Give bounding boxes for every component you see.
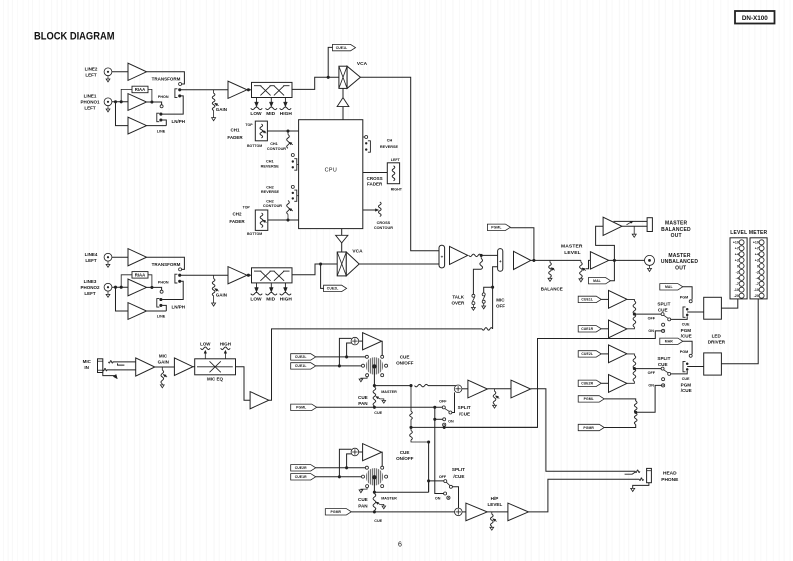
svg-text:PGML: PGML bbox=[296, 406, 306, 410]
svg-text:CUE2L: CUE2L bbox=[581, 352, 593, 356]
svg-text:TOP: TOP bbox=[245, 123, 253, 127]
svg-text:+2: +2 bbox=[735, 259, 739, 263]
svg-text:SPLIT: SPLIT bbox=[452, 467, 465, 472]
svg-text:PGMR: PGMR bbox=[331, 510, 342, 514]
svg-text:/CUE: /CUE bbox=[453, 474, 464, 479]
svg-text:ON: ON bbox=[448, 420, 454, 424]
svg-text:LEFT: LEFT bbox=[391, 158, 401, 162]
svg-text:TALK: TALK bbox=[452, 294, 464, 299]
svg-text:LEFT: LEFT bbox=[85, 258, 96, 263]
svg-text:CUE1L: CUE1L bbox=[295, 364, 307, 368]
svg-text:LINE4: LINE4 bbox=[85, 252, 98, 257]
svg-text:MIC: MIC bbox=[83, 359, 92, 364]
svg-text:PGM: PGM bbox=[680, 350, 688, 354]
svg-text:LINE3: LINE3 bbox=[84, 279, 97, 284]
svg-text:IN: IN bbox=[84, 365, 89, 370]
svg-text:ON: ON bbox=[648, 329, 654, 333]
svg-text:ON/OFF: ON/OFF bbox=[396, 360, 414, 365]
svg-text:PGML: PGML bbox=[491, 226, 501, 230]
svg-text:BALANCED: BALANCED bbox=[661, 227, 691, 233]
svg-text:PGM: PGM bbox=[681, 382, 692, 387]
svg-text:SPLIT: SPLIT bbox=[458, 405, 471, 410]
svg-text:LED: LED bbox=[712, 334, 722, 339]
svg-text:BLOCK DIAGRAM: BLOCK DIAGRAM bbox=[34, 31, 115, 43]
svg-text:FADER: FADER bbox=[367, 181, 383, 186]
svg-text:PAN: PAN bbox=[358, 503, 368, 508]
svg-text:-7: -7 bbox=[756, 282, 759, 286]
svg-text:OUT: OUT bbox=[671, 233, 682, 239]
svg-text:CUE: CUE bbox=[658, 362, 668, 367]
svg-text:REVERSE: REVERSE bbox=[380, 145, 399, 149]
svg-text:MAL: MAL bbox=[593, 279, 601, 283]
svg-text:DRIVER: DRIVER bbox=[708, 339, 726, 344]
svg-text:ON/OFF: ON/OFF bbox=[396, 456, 414, 461]
svg-text:CROSS: CROSS bbox=[377, 221, 391, 225]
svg-text:LOW: LOW bbox=[200, 342, 211, 347]
svg-text:-20: -20 bbox=[754, 294, 759, 298]
svg-text:LEFT: LEFT bbox=[84, 291, 95, 296]
svg-text:GAIN: GAIN bbox=[216, 107, 227, 112]
svg-text:LINE1: LINE1 bbox=[84, 93, 97, 98]
svg-text:+2: +2 bbox=[755, 259, 759, 263]
svg-text:LN/PH: LN/PH bbox=[172, 119, 186, 124]
svg-text:RIAA: RIAA bbox=[135, 273, 146, 278]
svg-text:CUE1R: CUE1R bbox=[581, 327, 593, 331]
svg-text:+: + bbox=[441, 254, 444, 259]
svg-text:CUE: CUE bbox=[400, 354, 410, 359]
svg-text:LEVEL METER: LEVEL METER bbox=[730, 230, 767, 236]
svg-text:MASTER: MASTER bbox=[668, 253, 691, 259]
svg-text:HIGH: HIGH bbox=[280, 296, 293, 302]
svg-text:/CUE: /CUE bbox=[681, 334, 692, 339]
svg-text:+4: +4 bbox=[735, 253, 739, 257]
svg-text:LOW: LOW bbox=[250, 296, 262, 302]
svg-text:ON: ON bbox=[435, 496, 441, 500]
svg-text:HIGH: HIGH bbox=[280, 111, 293, 117]
svg-text:H/P: H/P bbox=[491, 496, 499, 501]
svg-text:CUE1R: CUE1R bbox=[295, 475, 307, 479]
svg-text:CUE: CUE bbox=[682, 323, 690, 327]
svg-text:CUE: CUE bbox=[658, 308, 668, 313]
svg-text:CONTOUR: CONTOUR bbox=[263, 204, 282, 208]
svg-text:VCA: VCA bbox=[352, 249, 363, 255]
svg-text:OFF: OFF bbox=[496, 304, 505, 309]
svg-text:-2: -2 bbox=[736, 270, 739, 274]
svg-text:RIGHT: RIGHT bbox=[391, 188, 403, 192]
svg-text:LINE: LINE bbox=[157, 129, 166, 133]
svg-text:-4: -4 bbox=[756, 276, 759, 280]
svg-text:CUE1L: CUE1L bbox=[336, 46, 348, 50]
svg-text:RIAA: RIAA bbox=[135, 87, 146, 92]
svg-text:TOP: TOP bbox=[243, 205, 251, 209]
svg-text:+10: +10 bbox=[733, 241, 739, 245]
svg-text:+7: +7 bbox=[735, 247, 739, 251]
svg-text:MASTER: MASTER bbox=[561, 243, 583, 249]
svg-text:LN/PH: LN/PH bbox=[172, 304, 186, 309]
svg-text:PHON: PHON bbox=[158, 281, 169, 285]
svg-text:CONTOUR: CONTOUR bbox=[267, 147, 286, 151]
svg-text:OFF: OFF bbox=[439, 400, 447, 404]
svg-text:GAIN: GAIN bbox=[158, 359, 169, 364]
svg-text:HIGH: HIGH bbox=[220, 342, 231, 347]
svg-text:-20: -20 bbox=[734, 294, 739, 298]
svg-text:CUE: CUE bbox=[374, 519, 382, 523]
svg-text:MIC EQ: MIC EQ bbox=[207, 377, 224, 382]
svg-text:PGMR: PGMR bbox=[583, 426, 594, 430]
svg-text:CUE1L: CUE1L bbox=[581, 298, 593, 302]
svg-text:PGML: PGML bbox=[584, 397, 594, 401]
svg-text:CH1: CH1 bbox=[230, 127, 239, 132]
svg-text:SPLIT: SPLIT bbox=[657, 301, 670, 306]
svg-text:+4: +4 bbox=[755, 253, 759, 257]
svg-text:OFF: OFF bbox=[648, 371, 656, 375]
svg-text:LEFT: LEFT bbox=[85, 72, 96, 77]
svg-text:CUE: CUE bbox=[358, 395, 368, 400]
svg-text:GAIN: GAIN bbox=[216, 293, 227, 298]
svg-text:PHONO2: PHONO2 bbox=[80, 285, 100, 290]
svg-text:-7: -7 bbox=[736, 282, 739, 286]
svg-text:LINE2: LINE2 bbox=[85, 66, 98, 71]
svg-text:MASTER: MASTER bbox=[381, 496, 397, 500]
svg-text:OUT: OUT bbox=[675, 266, 686, 272]
svg-text:CUE2L: CUE2L bbox=[295, 355, 307, 359]
svg-text:/CUE: /CUE bbox=[459, 412, 470, 417]
svg-text:CH: CH bbox=[387, 138, 393, 142]
svg-text:LINE: LINE bbox=[157, 315, 166, 319]
svg-text:UNBALANCED: UNBALANCED bbox=[661, 259, 698, 265]
svg-text:CUE: CUE bbox=[358, 497, 368, 502]
svg-text:CH2: CH2 bbox=[232, 211, 241, 216]
svg-text:CH2: CH2 bbox=[266, 185, 274, 189]
svg-text:MIC: MIC bbox=[496, 298, 505, 303]
svg-text:PHONO1: PHONO1 bbox=[80, 99, 100, 104]
svg-text:MASTER: MASTER bbox=[665, 221, 688, 227]
svg-text:0: 0 bbox=[737, 264, 739, 268]
svg-text:HEAD: HEAD bbox=[663, 471, 677, 477]
svg-text:PGM: PGM bbox=[680, 295, 688, 299]
svg-text:PHONE: PHONE bbox=[661, 477, 679, 483]
svg-text:REVERSE: REVERSE bbox=[261, 190, 280, 194]
svg-text:FADER: FADER bbox=[227, 135, 243, 140]
svg-text:+: + bbox=[499, 259, 502, 264]
svg-text:VCA: VCA bbox=[357, 61, 368, 67]
svg-text:6: 6 bbox=[398, 542, 402, 549]
svg-text:CUE2L: CUE2L bbox=[327, 287, 339, 291]
svg-text:TRANSFORM: TRANSFORM bbox=[152, 262, 181, 267]
svg-text:OFF: OFF bbox=[648, 316, 656, 320]
svg-text:/CUE: /CUE bbox=[681, 388, 692, 393]
svg-text:REVERSE: REVERSE bbox=[261, 164, 280, 168]
svg-text:TRANSFORM: TRANSFORM bbox=[152, 76, 181, 81]
svg-text:MAR: MAR bbox=[665, 340, 673, 344]
svg-text:+7: +7 bbox=[755, 247, 759, 251]
svg-text:+10: +10 bbox=[753, 241, 759, 245]
svg-text:CH2: CH2 bbox=[266, 200, 274, 204]
svg-text:MIC: MIC bbox=[159, 353, 168, 358]
svg-text:LEVEL: LEVEL bbox=[487, 502, 502, 507]
svg-text:MID: MID bbox=[266, 111, 275, 117]
svg-text:CPU: CPU bbox=[325, 167, 338, 173]
svg-text:OFF: OFF bbox=[439, 475, 447, 479]
svg-text:DN-X100: DN-X100 bbox=[742, 15, 768, 22]
svg-text:LOW: LOW bbox=[250, 111, 262, 117]
svg-text:BOTTOM: BOTTOM bbox=[247, 232, 262, 236]
svg-text:PHON: PHON bbox=[158, 95, 169, 99]
svg-text:-2: -2 bbox=[756, 270, 759, 274]
svg-text:FADER: FADER bbox=[229, 219, 245, 224]
svg-text:PAN: PAN bbox=[358, 401, 368, 406]
svg-text:-10: -10 bbox=[734, 288, 739, 292]
svg-text:CH1: CH1 bbox=[270, 142, 278, 146]
svg-text:BOTTOM: BOTTOM bbox=[247, 144, 262, 148]
svg-text:CUE2R: CUE2R bbox=[581, 382, 593, 386]
svg-text:PGM: PGM bbox=[681, 328, 692, 333]
svg-text:-4: -4 bbox=[736, 276, 739, 280]
svg-text:BALANCE: BALANCE bbox=[541, 287, 563, 292]
svg-text:SPLIT: SPLIT bbox=[657, 356, 670, 361]
svg-text:MID: MID bbox=[266, 296, 275, 302]
svg-text:MAL: MAL bbox=[665, 285, 673, 289]
svg-text:MASTER: MASTER bbox=[381, 390, 397, 394]
svg-text:LEVEL: LEVEL bbox=[564, 250, 581, 256]
svg-text:CROSS: CROSS bbox=[367, 176, 383, 181]
svg-text:OVER: OVER bbox=[452, 300, 466, 305]
svg-text:CONTOUR: CONTOUR bbox=[374, 226, 393, 230]
svg-text:CUE: CUE bbox=[374, 411, 382, 415]
svg-text:ON: ON bbox=[648, 384, 654, 388]
svg-text:0: 0 bbox=[757, 264, 759, 268]
svg-text:CUE: CUE bbox=[682, 377, 690, 381]
svg-text:CUE: CUE bbox=[400, 450, 410, 455]
svg-text:CH1: CH1 bbox=[266, 159, 274, 163]
svg-text:LEFT: LEFT bbox=[84, 105, 95, 110]
svg-text:-10: -10 bbox=[754, 288, 759, 292]
svg-text:CUE2R: CUE2R bbox=[295, 466, 307, 470]
